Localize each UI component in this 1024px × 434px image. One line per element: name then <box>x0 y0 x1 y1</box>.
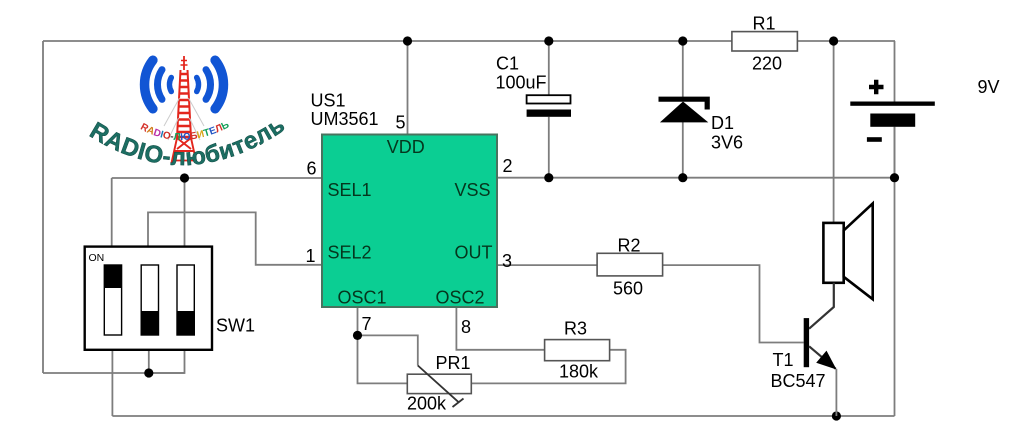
svg-text:180k: 180k <box>559 362 599 382</box>
zener diode D1 anode triangle <box>660 102 708 123</box>
svg-text:D1: D1 <box>711 113 734 133</box>
wire top supply rail <box>43 40 895 42</box>
switch SW1 slider 1 slot <box>104 265 121 335</box>
battery B1 negative plate <box>870 114 915 127</box>
svg-text:PR1: PR1 <box>436 353 471 373</box>
wire SW1 switch3 bottom lead <box>149 350 185 373</box>
svg-text:UM3561: UM3561 <box>311 109 379 129</box>
wire R3 to PR1 right terminal <box>471 350 625 384</box>
svg-text:BC547: BC547 <box>771 371 826 391</box>
svg-text:5: 5 <box>396 113 406 133</box>
svg-text:8: 8 <box>461 317 471 337</box>
wire OSC1 pin7 lead <box>357 307 359 335</box>
junction node top D1 <box>678 36 687 45</box>
wire D1 top lead <box>682 41 684 97</box>
battery B1 positive plate <box>850 102 935 106</box>
svg-text:T1: T1 <box>773 350 794 370</box>
wire SW1 switch1 bottom lead <box>111 350 113 416</box>
junction node top C1 <box>544 36 553 45</box>
junction node SW1 return <box>144 368 153 377</box>
wire C1 top lead <box>548 41 550 95</box>
switch SW1 body <box>85 247 212 350</box>
transistor Q1 T1 emitter arrow <box>816 351 836 370</box>
IC US1 UM3561 body <box>322 135 497 308</box>
svg-text:2: 2 <box>503 156 513 176</box>
switch SW1 slider 3 slot <box>177 265 194 335</box>
junction node emitter ground <box>832 411 841 420</box>
svg-text:R3: R3 <box>564 319 587 339</box>
wire SEL2 pin1 from switch2 <box>148 212 322 264</box>
wire pin5 VDD lead <box>407 41 409 135</box>
svg-text:7: 7 <box>362 314 372 334</box>
wire SW1 switch2 bottom lead <box>148 350 150 373</box>
logo guy wires <box>164 98 204 140</box>
logo blue arcs left <box>145 60 172 109</box>
junction node VSS D1 <box>678 173 687 182</box>
svg-text:3: 3 <box>502 251 512 271</box>
wire D1 bottom lead <box>682 122 684 178</box>
wire speaker top lead <box>833 41 835 223</box>
svg-text:R1: R1 <box>753 14 776 34</box>
wire SW1 bottom return <box>43 372 185 374</box>
speaker LS1 horn <box>844 204 873 300</box>
svg-text:SEL2: SEL2 <box>328 243 372 263</box>
junction node top speaker branch <box>829 36 838 45</box>
wire SW1 switch1 top lead <box>111 178 113 247</box>
resistor R3 body <box>545 340 610 361</box>
svg-text:R2: R2 <box>618 236 641 256</box>
zener diode D1 cathode bar <box>659 99 708 109</box>
wire VSS rail <box>497 177 895 179</box>
junction node VSS C1 <box>544 173 553 182</box>
svg-text:6: 6 <box>307 159 317 179</box>
switch SW1 slider 2 slot <box>141 265 158 335</box>
svg-text:SEL1: SEL1 <box>328 180 372 200</box>
wire OSC1 to PR1 wiper <box>358 335 418 365</box>
junction node top pin5 <box>403 36 412 45</box>
wire battery negative lead <box>894 127 896 178</box>
wire SW1 switch3 top lead <box>184 178 186 247</box>
wire left border <box>42 41 44 373</box>
svg-text:VSS: VSS <box>455 180 491 200</box>
wire OSC1 to PR1 left terminal <box>358 335 408 383</box>
svg-text:US1: US1 <box>311 91 346 111</box>
wire SEL1 pin6 <box>112 177 322 179</box>
capacitor C1 bottom plate <box>527 110 571 117</box>
switch SW1 slider 1 knob <box>104 265 121 288</box>
potentiometer PR1 wiper arrow <box>418 366 464 408</box>
speaker LS1 driver <box>823 223 843 283</box>
junction node VSS battery <box>890 173 899 182</box>
resistor R2 body <box>597 253 663 276</box>
transistor Q1 T1 emitter wire <box>809 346 836 369</box>
wire C1 bottom lead <box>548 117 550 178</box>
resistor R1 body <box>732 32 798 51</box>
wire OUT pin3 to R2 <box>497 264 597 266</box>
wire battery positive lead <box>894 41 896 102</box>
junction node OSC1 <box>353 331 362 340</box>
svg-text:C1: C1 <box>496 54 519 74</box>
svg-text:OSC2: OSC2 <box>436 288 485 308</box>
battery minus sign <box>867 137 882 142</box>
svg-text:3V6: 3V6 <box>711 133 743 153</box>
svg-text:9V: 9V <box>978 77 1000 97</box>
junction node SEL1 switch3 <box>180 173 189 182</box>
wire right border <box>894 127 896 416</box>
wire R2 to T1 base <box>663 265 804 342</box>
svg-text:100uF: 100uF <box>496 73 547 93</box>
svg-text:220: 220 <box>752 54 782 74</box>
logo radio amateur <box>85 56 290 171</box>
svg-text:OUT: OUT <box>455 243 493 263</box>
transistor Q1 T1 collector wire <box>809 283 834 329</box>
wire OSC2 pin8 to R3 <box>456 307 544 350</box>
wire emitter to ground <box>835 369 837 416</box>
svg-text:OSC1: OSC1 <box>338 288 387 308</box>
battery plus sign <box>869 80 884 95</box>
svg-text:200k: 200k <box>407 394 447 414</box>
svg-text:1: 1 <box>306 246 316 266</box>
potentiometer PR1 body <box>407 374 471 393</box>
transistor Q1 T1 base bar <box>804 318 809 367</box>
logo blue arcs right <box>197 60 224 109</box>
switch SW1 slider 3 knob <box>177 311 194 335</box>
svg-text:VDD: VDD <box>387 137 425 157</box>
logo radio tower <box>172 56 197 163</box>
switch SW1 slider 2 knob <box>141 311 158 335</box>
capacitor C1 top plate <box>527 95 571 103</box>
wire bottom ground rail <box>112 415 894 417</box>
svg-text:ON: ON <box>89 252 105 264</box>
svg-text:SW1: SW1 <box>216 316 255 336</box>
svg-text:560: 560 <box>613 279 643 299</box>
